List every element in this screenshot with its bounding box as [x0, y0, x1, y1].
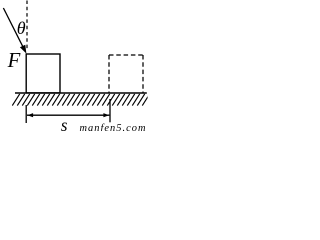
dimension line s — [27, 114, 109, 116]
dashed vertical reference line through force application point — [26, 1, 28, 51]
svg-text:F: F — [7, 49, 21, 72]
svg-text:s: s — [61, 115, 68, 131]
block final position (dashed square) — [109, 55, 143, 93]
dimension right tick — [109, 99, 111, 122]
ground line — [15, 92, 147, 94]
block initial position (solid square) — [26, 54, 60, 93]
svg-text:manfen5.com: manfen5.com — [80, 123, 146, 131]
svg-text:θ: θ — [17, 18, 26, 38]
dimension left tick — [25, 105, 27, 123]
force arrowhead — [20, 45, 27, 54]
dimension right arrowhead — [103, 113, 109, 117]
force arrow F shaft — [3, 8, 23, 49]
dimension left arrowhead — [27, 113, 33, 117]
